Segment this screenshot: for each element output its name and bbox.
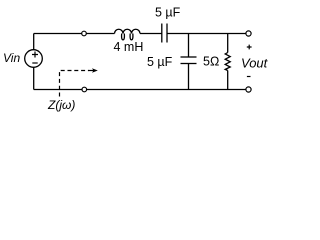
capacitor C2 shunt bottom plate (181, 63, 197, 65)
capacitor C1 series left plate (161, 24, 163, 43)
wire shunt branch down to bottom wire (188, 64, 190, 90)
node circle bottom (port) (82, 87, 87, 92)
resistor R 5ohm zigzag (225, 53, 230, 71)
svg-text:4 mH: 4 mH (114, 40, 144, 54)
wire top: series capacitor right plate to output terminal (167, 33, 246, 35)
svg-text:Vin: Vin (3, 51, 20, 65)
svg-text:Vout: Vout (241, 56, 269, 71)
svg-text:Z(jω): Z(jω) (47, 98, 75, 112)
impedance arrowhead (92, 68, 98, 73)
impedance arrow solid shaft (89, 70, 95, 72)
plus sign output (247, 45, 252, 50)
capacitor C1 series right plate (166, 24, 168, 43)
inductor L 4mH coil (115, 29, 141, 33)
inductor lower loop 2 (130, 34, 133, 40)
capacitor C2 shunt top plate (181, 56, 197, 58)
wire bottom: source corner to output terminal (34, 89, 246, 91)
wire shunt branch down from top wire (188, 34, 190, 58)
impedance arrow Z(jw) dashed (60, 71, 90, 97)
terminal circle bottom right (246, 87, 251, 92)
svg-text:5 µF: 5 µF (155, 6, 181, 20)
wire left vertical: source bottom to bottom wire (33, 67, 35, 89)
terminal circle top right (246, 31, 251, 36)
svg-text:5 µF: 5 µF (147, 55, 173, 69)
minus sign inside source (32, 62, 37, 64)
wire top: source corner to inductor (34, 33, 115, 35)
minus sign output (247, 76, 251, 78)
voltage source Vin circle (25, 50, 43, 68)
plus sign inside source (32, 52, 38, 58)
wire resistor branch top (227, 34, 229, 53)
node circle top (port) (82, 31, 87, 36)
wire left vertical: top corner down to source (33, 34, 35, 50)
wire resistor branch bottom (227, 71, 229, 90)
inductor lower loop 1 (122, 34, 125, 40)
svg-text:5Ω: 5Ω (203, 55, 219, 69)
wire top: inductor to series capacitor left plate (140, 33, 162, 35)
